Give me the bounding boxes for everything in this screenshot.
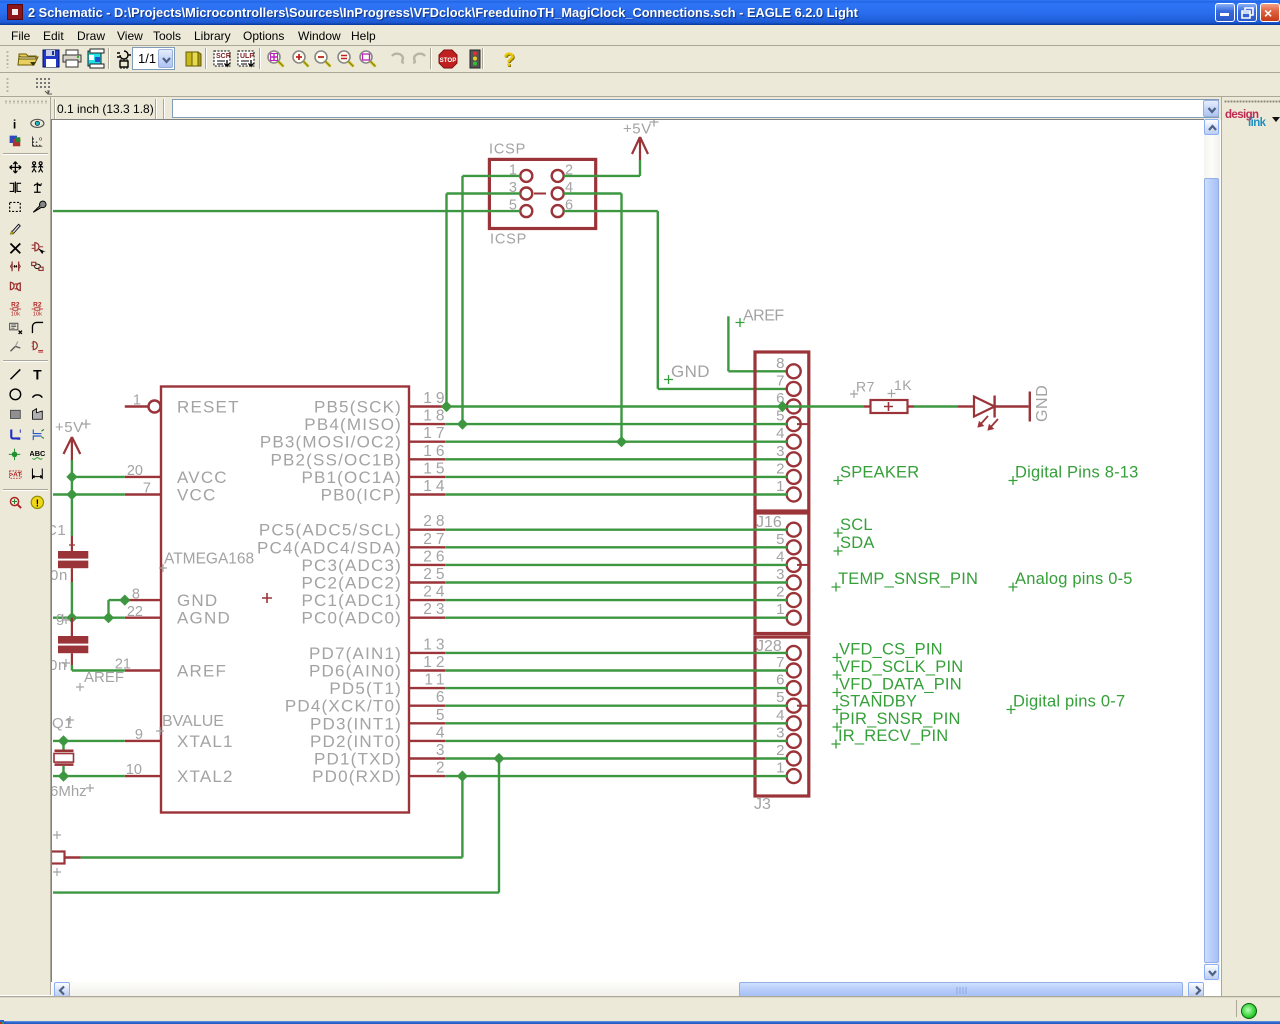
svg-text:Digital pins 0-7: Digital pins 0-7 — [1013, 693, 1125, 711]
svg-text:+5V: +5V — [55, 419, 84, 436]
svg-text:PD7(AIN1): PD7(AIN1) — [309, 644, 402, 663]
svg-text:Digital Pins 8-13: Digital Pins 8-13 — [1015, 464, 1139, 482]
svg-text:?: ? — [503, 50, 515, 70]
svg-text:RESET: RESET — [177, 398, 240, 417]
svg-text:7: 7 — [143, 481, 151, 497]
svg-text:PB1(OC1A): PB1(OC1A) — [301, 468, 402, 487]
svg-text:VFD_CS_PIN: VFD_CS_PIN — [839, 641, 943, 659]
svg-text:22: 22 — [127, 604, 143, 620]
svg-text:1: 1 — [776, 478, 784, 495]
svg-text:C1: C1 — [52, 522, 66, 539]
svg-text:27: 27 — [423, 531, 448, 548]
svg-text:2: 2 — [776, 742, 784, 759]
svg-text:9: 9 — [135, 727, 143, 743]
svg-text:SCR: SCR — [216, 53, 231, 60]
svg-text:PD6(AIN0): PD6(AIN0) — [309, 662, 402, 681]
svg-text:GND: GND — [177, 591, 218, 610]
svg-text:1: 1 — [776, 601, 784, 618]
svg-text:10: 10 — [126, 762, 142, 778]
svg-text:7: 7 — [776, 372, 784, 389]
svg-text:i: i — [13, 117, 16, 131]
svg-text:AGND: AGND — [177, 609, 231, 628]
svg-text:SDA: SDA — [840, 534, 875, 552]
svg-text:VFD_SCLK_PIN: VFD_SCLK_PIN — [839, 658, 963, 676]
svg-text:PC5(ADC5/SCL): PC5(ADC5/SCL) — [259, 521, 402, 540]
svg-text:PB5(SCK): PB5(SCK) — [314, 398, 402, 417]
svg-text:4: 4 — [776, 548, 784, 565]
svg-text:15: 15 — [423, 460, 448, 477]
svg-text:20: 20 — [127, 463, 143, 479]
svg-text:R7: R7 — [856, 379, 875, 395]
svg-text:4: 4 — [776, 425, 784, 442]
svg-text:PC4(ADC4/SDA): PC4(ADC4/SDA) — [257, 538, 402, 557]
svg-text:5: 5 — [776, 689, 784, 706]
svg-text:10k: 10k — [11, 312, 20, 318]
svg-text:BVALUE: BVALUE — [162, 713, 224, 730]
svg-text:28: 28 — [423, 513, 448, 530]
svg-text:PD4(XCK/T0): PD4(XCK/T0) — [285, 697, 402, 716]
svg-text:6Mhz: 6Mhz — [52, 783, 87, 800]
svg-text:GND: GND — [1034, 385, 1051, 422]
svg-text:ABC: ABC — [30, 449, 46, 458]
svg-text:o: o — [39, 137, 42, 143]
svg-text:>AT: >AT — [9, 472, 21, 479]
svg-text:2: 2 — [776, 584, 784, 601]
svg-text:14: 14 — [423, 478, 448, 495]
svg-text:T: T — [33, 367, 42, 382]
svg-text:2: 2 — [776, 460, 784, 477]
svg-text:8: 8 — [132, 587, 140, 603]
svg-text:XTAL1: XTAL1 — [177, 732, 234, 751]
svg-text:g: g — [56, 609, 65, 626]
svg-text:2: 2 — [436, 760, 449, 777]
svg-text:PIR_SNSR_PIN: PIR_SNSR_PIN — [839, 710, 961, 728]
svg-text:ATMEGA168: ATMEGA168 — [164, 551, 254, 568]
svg-text:26: 26 — [423, 548, 448, 565]
svg-text:VFD_DATA_PIN: VFD_DATA_PIN — [839, 676, 962, 694]
svg-text:0n: 0n — [52, 567, 68, 584]
svg-text:Analog pins 0-5: Analog pins 0-5 — [1015, 570, 1133, 588]
svg-text:PD0(RXD): PD0(RXD) — [312, 767, 402, 786]
svg-text:24: 24 — [423, 584, 448, 601]
svg-text:GND: GND — [671, 362, 710, 381]
svg-text:ULP: ULP — [240, 53, 254, 60]
svg-text:VCC: VCC — [177, 486, 217, 505]
svg-text:12: 12 — [423, 654, 448, 671]
svg-text:6: 6 — [776, 672, 784, 689]
svg-text:8: 8 — [776, 355, 784, 372]
svg-text:3: 3 — [436, 742, 449, 759]
svg-text:6: 6 — [436, 689, 449, 706]
svg-text:0n: 0n — [52, 657, 67, 674]
svg-text:PC3(ADC3): PC3(ADC3) — [301, 556, 402, 575]
svg-text:25: 25 — [423, 566, 448, 583]
svg-text:AVCC: AVCC — [177, 468, 228, 487]
svg-text:AREF: AREF — [177, 662, 227, 681]
svg-text:PD5(T1): PD5(T1) — [329, 679, 402, 698]
svg-text:3: 3 — [776, 443, 784, 460]
svg-text:4: 4 — [776, 707, 784, 724]
svg-text:3: 3 — [776, 566, 784, 583]
svg-text:11: 11 — [424, 672, 448, 689]
svg-text:7: 7 — [776, 654, 784, 671]
svg-text:3: 3 — [776, 724, 784, 741]
svg-text:PB4(MISO): PB4(MISO) — [304, 415, 402, 434]
svg-text:TEMP_SNSR_PIN: TEMP_SNSR_PIN — [838, 570, 978, 588]
svg-text:AREF: AREF — [84, 669, 124, 686]
svg-text:PD2(INT0): PD2(INT0) — [310, 732, 402, 751]
svg-text:16: 16 — [423, 443, 448, 460]
svg-text:1K: 1K — [894, 377, 912, 393]
svg-text:5: 5 — [776, 531, 784, 548]
svg-text:J3: J3 — [754, 796, 771, 813]
svg-text:PC0(ADC0): PC0(ADC0) — [301, 609, 402, 628]
svg-text:13: 13 — [423, 636, 448, 653]
svg-text:STANDBY: STANDBY — [839, 693, 917, 711]
svg-text:J16: J16 — [756, 514, 782, 531]
svg-text:SPEAKER: SPEAKER — [840, 464, 919, 482]
svg-text:PB2(SS/OC1B): PB2(SS/OC1B) — [270, 450, 402, 469]
svg-text:XTAL2: XTAL2 — [177, 767, 234, 786]
svg-text:PB0(ICP): PB0(ICP) — [321, 486, 402, 505]
svg-text:ICSP: ICSP — [490, 232, 527, 248]
svg-text:AREF: AREF — [743, 308, 784, 325]
svg-text:+5V: +5V — [623, 121, 652, 138]
svg-text:PD3(INT1): PD3(INT1) — [310, 714, 402, 733]
svg-text:PC2(ADC2): PC2(ADC2) — [301, 574, 402, 593]
svg-text:1: 1 — [776, 760, 784, 777]
svg-text:PB3(MOSI/OC2): PB3(MOSI/OC2) — [260, 433, 402, 452]
svg-text:IR_RECV_PIN: IR_RECV_PIN — [838, 727, 948, 745]
svg-text:17: 17 — [423, 425, 448, 442]
svg-text:!: ! — [36, 498, 39, 509]
svg-text:10k: 10k — [33, 312, 42, 318]
svg-text:5: 5 — [436, 707, 449, 724]
svg-text:4: 4 — [436, 724, 449, 741]
svg-text:PC1(ADC1): PC1(ADC1) — [301, 591, 402, 610]
svg-text:STOP: STOP — [440, 57, 457, 64]
svg-text:SCL: SCL — [840, 516, 873, 534]
svg-text:PD1(TXD): PD1(TXD) — [314, 750, 402, 769]
svg-text:23: 23 — [423, 601, 448, 618]
svg-text:ICSP: ICSP — [489, 142, 526, 158]
svg-text:1: 1 — [133, 393, 141, 409]
